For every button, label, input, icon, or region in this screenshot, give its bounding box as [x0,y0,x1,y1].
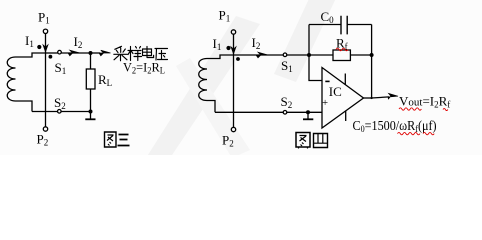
wire C0 right horizontal [347,24,371,26]
图 glyph [105,132,117,147]
wire rail to text arrow [91,52,101,54]
svg-text:S1: S1 [55,60,67,76]
电 [143,47,154,58]
svg-text:S2: S2 [281,94,293,110]
power pin bottom [345,111,347,121]
wire P2 stub fig4 [233,112,235,127]
arrow I1 down fig4 [231,42,235,54]
svg-text:C0=1500/ωRf(μf): C0=1500/ωRf(μf) [353,118,437,134]
wire right vertical rail to output [371,55,373,98]
svg-text:Vout=I2Rf: Vout=I2Rf [399,94,450,110]
wire C0 left horizontal [309,24,341,26]
caption 图三 [105,132,130,147]
wire C0 left vertical [308,25,310,56]
svg-text:I1: I1 [25,33,34,49]
watermark band 1 [146,16,260,158]
svg-text:I1: I1 [213,36,222,52]
junction node output fig4 [371,97,373,99]
三 glyph [118,135,130,146]
wire output [364,97,373,99]
wire coil top lead fig4 [207,55,234,59]
ground bar fig3 [85,118,95,120]
wire P1 vertical fig4 [233,34,235,112]
样 [128,47,142,61]
svg-text:C0: C0 [321,9,335,25]
压 [155,49,168,61]
junction dot rail-branch fig4 [307,53,311,57]
junction dot ground fig3 [89,110,93,114]
svg-text:S2: S2 [54,95,66,111]
ground stub fig4 [307,112,309,119]
wire P2 stub [45,112,47,127]
resistor RL body [86,69,95,89]
squiggle under uf [423,132,434,134]
squiggle under Vout [399,108,421,110]
squiggle under Rf [336,48,348,51]
terminal P1 circle fig4 [231,30,235,34]
wire top rail [46,52,58,54]
wire output arrow shaft [372,97,389,98]
wire RL bottom lead [90,89,92,119]
arrow to sampling text fig3 [99,50,111,56]
squiggle under f subscript [443,108,448,110]
junction dot ground fig4 [306,110,310,114]
terminal P2 circle fig4 [231,127,235,131]
resistor Rf body [333,50,350,61]
switch S2 circle fig4 [283,111,287,115]
wire right vertical C0 to rail [371,25,373,56]
wire P1 vertical [45,34,47,112]
svg-text:I2: I2 [252,35,261,51]
label minus input [325,80,329,82]
wire top rail fig4 [234,54,284,56]
wire inverting branch vertical [309,55,322,81]
resistor Rf leads [309,54,333,56]
watermark band 3 [176,58,250,158]
wire bottom rail fig4 [215,111,322,113]
采 [114,46,127,61]
svg-text:I2: I2 [74,34,83,50]
inductor L2 coil fig4 [199,59,207,101]
power pin top [344,74,346,86]
svg-text:IC: IC [329,84,342,99]
arrow output fig4 [388,93,398,99]
wire rail S1 to junction fig4 [287,54,309,56]
node dot S1 lever fig3 [49,55,53,59]
svg-text:P1: P1 [219,8,231,24]
junction dot Rf right fig4 [370,53,374,57]
arrow I2 on rail fig3 [68,50,80,56]
wire coil bottom lead [16,101,33,112]
watermark band 2 [274,0,338,82]
terminal P1 circle [43,29,47,33]
switch S1 circle fig4 [283,53,287,57]
svg-text:V2=I2RL: V2=I2RL [123,60,165,75]
arrow I1 down fig3 [43,41,47,52]
node dot near I1 fig4 [226,46,230,50]
四 glyph [314,134,328,148]
wire coil top lead [16,53,46,57]
node dot below rail fig4 [236,57,240,61]
ground bar fig4 [303,118,313,120]
wire RL top lead [90,53,92,69]
svg-text:P1: P1 [38,10,50,26]
wire coil bottom lead fig4 [207,101,215,113]
svg-text:+: + [322,98,328,109]
resistor Rf right lead [350,54,371,56]
svg-text:P2: P2 [37,132,49,148]
inductor L1 coil [7,57,15,101]
switch S1 circle [58,50,62,54]
arrow I2 on rail fig4 [256,52,268,58]
wire bottom rail [32,111,91,113]
图 glyph fig4 [296,133,310,148]
terminal P2 circle [43,127,47,131]
label sampling voltage 采样电压 [114,46,168,61]
switch S2 circle [58,110,62,114]
wire rail S1 to RL junction [62,52,91,54]
junction dot RL top [89,51,93,55]
node dot near I1 fig3 [37,45,41,49]
svg-text:RL: RL [98,72,112,88]
caption 图四 [296,133,328,149]
squiggle under omega-Rf [398,132,420,134]
capacitor C0 plates [341,16,347,35]
op-amp U1 triangle [322,68,364,129]
